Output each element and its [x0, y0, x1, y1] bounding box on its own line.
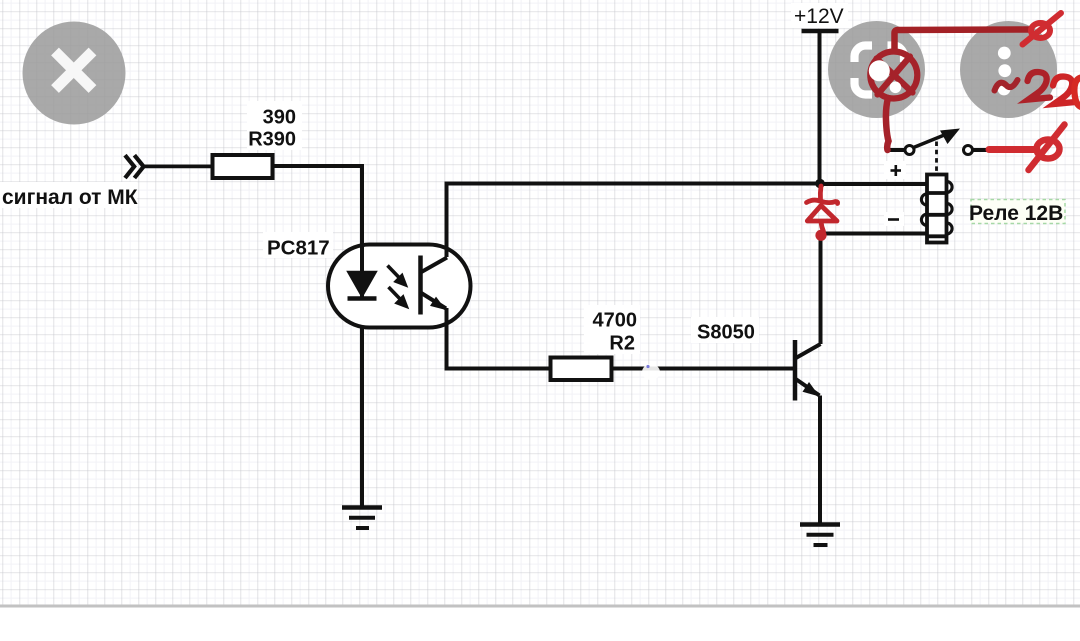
wire: LED cathode down to ground: [360, 296, 364, 507]
svg-text:S8050: S8050: [697, 322, 755, 344]
wire: emitter down to ground: [818, 396, 822, 525]
transistor Q1 S8050: [795, 340, 821, 401]
svg-text:Реле 12В: Реле 12В: [969, 202, 1063, 225]
svg-text:сигнал от МК: сигнал от МК: [2, 186, 138, 209]
wire: R390 to LED anode, down: [273, 166, 363, 245]
wire: R2 to base: [612, 367, 794, 371]
svg-text:PC817: PC817: [267, 237, 330, 260]
lens icon white dots (drawn over bulb): [869, 60, 890, 81]
label box Реле 12В: [971, 200, 1065, 224]
svg-text:+12V: +12V: [794, 5, 844, 28]
lens button: [828, 21, 925, 118]
wire: collector up to relay-bottom node: [819, 234, 823, 345]
light arrows: [388, 266, 408, 308]
ground (right): [800, 525, 840, 546]
switch S1: left contact: [887, 148, 904, 152]
optocoupler U1 PC817 body: [328, 245, 471, 328]
phototransistor emitter arrowhead: [430, 297, 446, 310]
label -: [888, 218, 899, 221]
red ~220: [995, 80, 1018, 91]
red wire: bulb top to upper terminal: [895, 30, 1032, 52]
menu button (3 dots): [960, 21, 1057, 118]
svg-text:390: 390: [263, 107, 296, 129]
svg-text:4700: 4700: [593, 310, 638, 332]
switch right contact: [964, 146, 973, 155]
node: input connector chevrons: [125, 155, 144, 178]
resistor R390: [213, 155, 273, 178]
junction node: [815, 179, 825, 189]
label backgrounds (white boxes under text): [0, 3, 906, 354]
wire: opto emitter down and right to R2: [447, 308, 551, 369]
wire: diode bottom to relay bottom: [820, 232, 927, 236]
LED D-opto: filled triangle + cathode bar: [348, 272, 377, 298]
switch lever with arrow: [914, 134, 949, 148]
red lamp bulb with cross: [870, 52, 917, 99]
transistor Q1 emitter arrowhead: [803, 382, 820, 397]
ground (left): [342, 508, 382, 529]
small eraser smudge on wire: [642, 364, 660, 380]
wire: junction to relay top: [820, 182, 927, 186]
relay coil K1: [921, 175, 952, 243]
dashed link switch-relay: [935, 142, 938, 172]
wire: opto collector up and right to junction: [447, 184, 819, 258]
close button (X): [23, 22, 126, 125]
label +: [891, 165, 902, 176]
resistor R2: [551, 358, 612, 381]
red wire: bulb bottom to switch: [886, 98, 889, 150]
flyback diode D1 (red, hand-drawn): [807, 186, 838, 232]
wire: LED vertical inside opto: [360, 244, 364, 298]
svg-text:R390: R390: [248, 129, 296, 151]
red terminal lower + wire: [989, 146, 1037, 153]
red terminal upper: [1023, 13, 1062, 45]
phototransistor of U1: [421, 256, 448, 315]
wire: input to R390: [144, 164, 212, 168]
svg-text:R2: R2: [609, 333, 635, 355]
